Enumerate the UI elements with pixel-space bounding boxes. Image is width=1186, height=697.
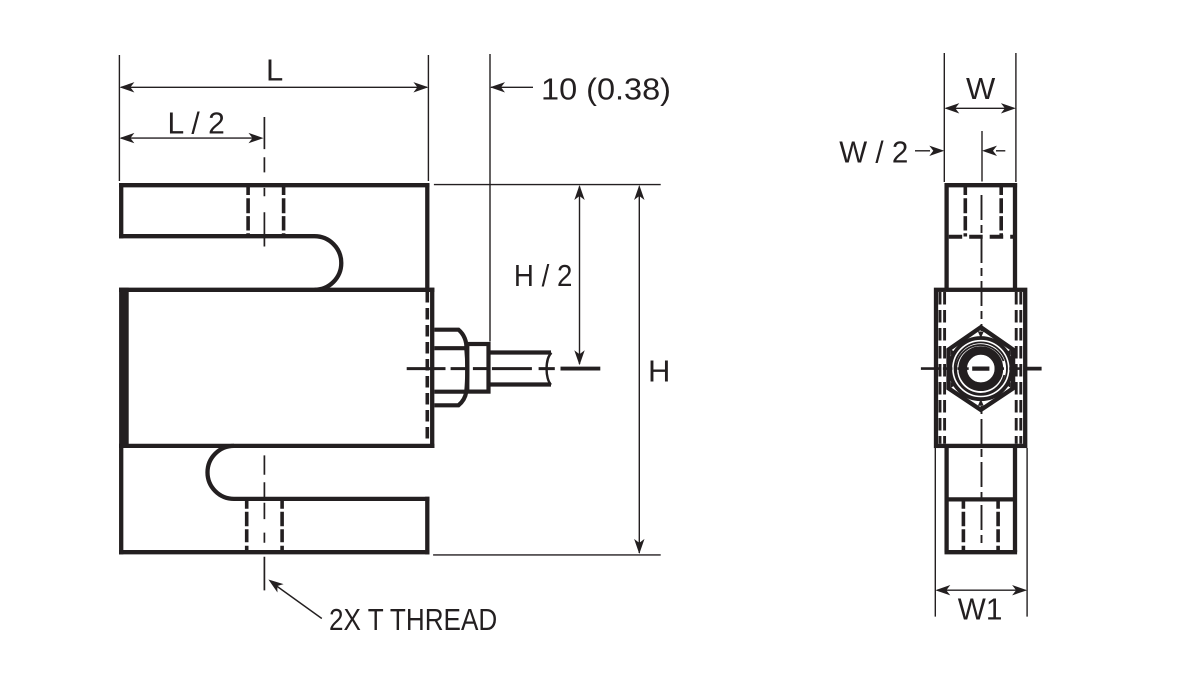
W extension line right: [1015, 53, 1017, 182]
side view centerline bold right tick: [1024, 367, 1042, 371]
bold centerline dash at H/2 arrow: [561, 367, 601, 371]
nut chamfer circle: [950, 338, 1011, 399]
W/2 left leader tail: [915, 150, 930, 152]
upper centerline: [263, 117, 265, 247]
bottom stub thread hidden line right: [996, 501, 1000, 551]
side view horizontal centerline dashes: [921, 367, 1020, 370]
svg-text:W1: W1: [958, 592, 1003, 627]
hidden edge line behind connector: [425, 291, 429, 445]
svg-text:10 (0.38): 10 (0.38): [541, 72, 671, 107]
L arrow left: [119, 82, 134, 92]
top stub left edge: [944, 183, 948, 290]
L arrow right: [413, 82, 428, 92]
svg-text:L: L: [266, 53, 283, 88]
lower slot bottom edge: [234, 497, 430, 501]
H/2 arrow up: [574, 185, 584, 200]
hidden line inside middle section right inner: [1015, 292, 1018, 444]
W/2 arrow pointing right: [929, 146, 944, 156]
W dimension line: [946, 107, 1014, 109]
top stub hole bottom hidden line: [949, 235, 1014, 239]
cable bottom line: [489, 382, 552, 386]
chamfer wedge top vertex: [978, 332, 984, 339]
hex lower facet boundary: [434, 390, 466, 394]
W1 extension line right: [1026, 448, 1028, 617]
hex middle facet right arc: [466, 348, 467, 392]
L/2 arrow right: [249, 133, 264, 143]
L/2 arrow left: [119, 133, 134, 143]
middle section rectangle: [936, 290, 1025, 446]
H/2 arrow down: [574, 350, 584, 365]
bottom extension line to H: [433, 554, 661, 556]
svg-text:W: W: [966, 71, 996, 106]
H arrow down: [634, 539, 644, 554]
hex upper facet boundary: [434, 346, 466, 350]
W1 dimension line: [937, 589, 1026, 591]
top extension line to H: [434, 184, 661, 186]
upper slot top edge: [119, 234, 315, 238]
hex top facet line: [434, 330, 466, 349]
top stub right edge: [1013, 183, 1017, 290]
svg-text:2X T THREAD: 2X T THREAD: [329, 602, 497, 637]
connector hex fitting on right: [434, 330, 551, 406]
W/2 right leader tail: [996, 150, 1005, 152]
top block thread hidden line right: [282, 187, 286, 237]
middle block right edge: [430, 288, 434, 448]
chamfer wedge upper-left vertex: [951, 349, 956, 355]
chamfer wedge lower-right vertex: [1006, 382, 1011, 388]
hex bottom facet line: [434, 392, 466, 406]
boss square: [467, 344, 488, 392]
H arrow up: [634, 185, 644, 200]
L dimension line: [121, 86, 427, 88]
svg-text:H / 2: H / 2: [514, 258, 573, 293]
hidden line inside middle section right outer: [1019, 292, 1022, 444]
W1 arrow right: [1012, 585, 1027, 595]
thread circle inner: [956, 345, 1004, 394]
horizontal centerline through connector: [407, 367, 555, 370]
svg-text:W / 2: W / 2: [839, 135, 908, 170]
hole centerline dash: [972, 367, 989, 371]
lower slot round end: [208, 446, 235, 499]
W arrow right: [1001, 103, 1016, 113]
bottom block bottom edge: [119, 550, 430, 554]
body outline: top block: [119, 183, 434, 554]
hex nut front view: [949, 327, 1014, 410]
L/2 dimension line: [121, 137, 261, 139]
H/2 dimension line: [579, 187, 581, 365]
bottom stub right edge: [1013, 446, 1017, 552]
W extension line left: [943, 53, 945, 182]
svg-text:H: H: [648, 354, 670, 389]
top block right edge: [425, 183, 429, 290]
upper slot round end: [315, 236, 342, 290]
H dimension line: [638, 187, 640, 554]
bolt hole bold circle: [963, 351, 999, 387]
L extension line right: [427, 55, 429, 181]
bottom stub left edge: [944, 446, 948, 552]
middle block bottom edge: [119, 444, 434, 448]
10 (0.38) leader tail: [491, 86, 533, 88]
W1 arrow left: [935, 585, 950, 595]
cable break line: [547, 353, 552, 385]
bottom block thread hidden line right: [280, 501, 284, 551]
bottom block left edge: [119, 444, 123, 555]
top block left edge: [119, 183, 123, 238]
bottom block thread hidden line left: [245, 501, 249, 551]
lower centerline: [263, 455, 265, 590]
bottom stub slot line: [947, 497, 1015, 501]
chamfer wedge bottom vertex: [978, 399, 984, 406]
bottom stub bottom edge: [945, 550, 1018, 554]
10 (0.38) extension line: [489, 54, 491, 342]
bottom stub thread hidden line left: [962, 501, 966, 551]
W/2 arrow pointing left: [982, 146, 997, 156]
top block thread hidden line left: [246, 187, 250, 237]
thread circle outer: [955, 342, 1007, 394]
cable top line: [489, 350, 552, 354]
side view vertical centerline: [981, 195, 983, 331]
middle block top edge: [119, 288, 434, 292]
L extension line left: [118, 55, 120, 181]
2X T THREAD leader line: [275, 585, 322, 619]
svg-text:L / 2: L / 2: [168, 106, 225, 141]
bottom block right edge: [425, 497, 429, 555]
middle block thick left edge: [119, 288, 129, 448]
W1 extension line left: [934, 448, 936, 617]
top stub thread hidden line right: [999, 187, 1003, 237]
W arrow left: [944, 103, 959, 113]
hidden line inside middle section left inner: [943, 292, 946, 444]
top stub top edge: [945, 183, 1018, 187]
top edge: [119, 183, 430, 187]
2X T THREAD arrow: [265, 575, 283, 592]
top stub thread hidden line left: [963, 187, 967, 237]
10 arrow: [490, 82, 505, 92]
W/2 extension line: [981, 131, 983, 182]
hidden line inside middle section left outer: [939, 292, 942, 444]
chamfer wedge upper-right vertex: [1006, 349, 1011, 355]
chamfer wedge lower-left vertex: [951, 382, 956, 388]
